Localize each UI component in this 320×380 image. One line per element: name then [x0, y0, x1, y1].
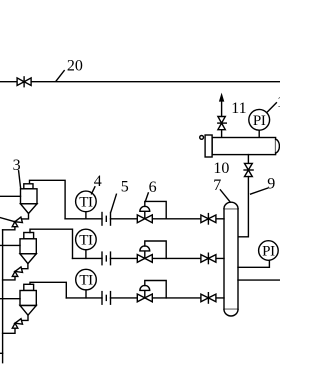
angle valve 2 discharge wire — [3, 276, 15, 280]
break symbol on line 3 — [102, 292, 111, 305]
drum right dished head — [276, 139, 280, 153]
hopper 2 body — [20, 239, 36, 254]
svg-text:6: 6 — [149, 179, 157, 196]
svg-text:TI: TI — [79, 194, 93, 210]
hopper 1 body — [21, 189, 38, 204]
TI 2 stub wire — [85, 250, 87, 259]
svg-text:12: 12 — [277, 94, 280, 111]
valve 11 (vertical) — [218, 117, 227, 130]
hopper 3 outlet wire — [30, 282, 66, 298]
block valve 1 — [201, 214, 216, 224]
control valve 2 bypass loop — [145, 241, 166, 258]
label 6 leader — [145, 193, 148, 202]
label 9 leader — [251, 188, 268, 194]
angle valve 2 — [12, 267, 22, 277]
valve below drum (vertical) — [244, 163, 253, 176]
angle valve 1 leader — [0, 218, 15, 222]
wire drum to valve — [247, 155, 249, 164]
drum nozzle circle — [200, 136, 204, 140]
column bottom dome — [224, 309, 238, 316]
control valve 2 — [137, 246, 152, 262]
label 12 leader — [267, 103, 277, 113]
header stub wire — [0, 352, 3, 354]
drum 10 body — [212, 138, 276, 155]
hopper 3 cone stem wire — [22, 315, 28, 320]
svg-text:9: 9 — [267, 175, 275, 192]
TI 1 stub wire — [85, 212, 87, 219]
train line 1 — [65, 218, 102, 220]
hopper 1 cone — [21, 204, 38, 214]
control valve 1 bypass loop — [145, 201, 166, 218]
control valve 1 — [137, 206, 152, 222]
vent line with arrow above drum — [221, 99, 223, 117]
svg-text:TI: TI — [79, 273, 93, 289]
valve on line 20 — [17, 77, 31, 87]
label 5 leader — [111, 194, 117, 212]
vent arrow — [219, 93, 224, 102]
control valve 3 bypass loop — [145, 281, 166, 298]
instrument PI (right) — [259, 241, 279, 261]
instrument TI 3 — [76, 269, 97, 290]
svg-text:3: 3 — [13, 157, 21, 174]
instrument PI (top) — [249, 109, 270, 130]
hopper 3 cone — [20, 306, 36, 316]
hopper 1 cap — [24, 184, 33, 189]
hopper 2 cone stem wire — [22, 264, 28, 269]
hopper 3 feed line — [0, 298, 20, 300]
block valve 3 — [201, 293, 216, 303]
discharge header wire — [2, 230, 4, 363]
angle valve 3 — [12, 319, 22, 329]
column top dome — [224, 202, 238, 208]
svg-text:10: 10 — [213, 160, 229, 177]
wire PI to drum — [258, 130, 260, 137]
svg-text:11: 11 — [231, 100, 246, 117]
column outlet with PI (right) — [238, 260, 269, 267]
label 4 leader — [92, 187, 95, 194]
angle valve 3 discharge wire — [3, 328, 15, 333]
block valve 2 — [201, 253, 216, 263]
svg-text:4: 4 — [94, 173, 102, 190]
column bottom outlet line — [238, 279, 280, 281]
hopper 1 feed line — [0, 195, 21, 197]
svg-text:PI: PI — [262, 244, 275, 260]
hopper 1 cone stem wire — [22, 213, 29, 219]
svg-text:7: 7 — [213, 177, 221, 194]
train line 3 — [66, 297, 102, 299]
hopper 2 feed line — [0, 244, 20, 246]
wire top header line 20 — [0, 81, 280, 83]
break symbol 5 on line 1 — [102, 213, 111, 226]
svg-text:TI: TI — [79, 233, 93, 249]
angle valve 1 discharge wire — [3, 227, 15, 230]
wire valve 11 to drum — [221, 130, 223, 138]
instrument TI 1 — [76, 191, 97, 212]
break symbol on line 2 — [102, 252, 111, 265]
label 3 leader — [19, 171, 21, 188]
svg-text:5: 5 — [121, 178, 129, 195]
svg-text:PI: PI — [253, 113, 266, 129]
train line 2 — [73, 257, 103, 259]
label 7 leader — [220, 190, 230, 202]
hopper 1 outlet wire — [30, 180, 66, 219]
instrument TI 2 — [76, 229, 97, 250]
hopper 2 outlet wire — [30, 229, 73, 258]
hopper 2 cap — [24, 233, 34, 239]
control valve 3 — [137, 285, 152, 301]
angle valve 1 — [12, 217, 22, 227]
wire valve down then left into column — [238, 177, 248, 237]
TI 3 stub wire — [85, 290, 87, 298]
hopper 3 body — [20, 291, 36, 306]
drum left flange — [205, 135, 212, 157]
label 20 leader — [56, 71, 64, 81]
column 7 shell — [224, 209, 238, 310]
svg-text:20: 20 — [67, 57, 83, 74]
hopper 2 cone — [20, 254, 36, 264]
hopper 3 cap — [24, 284, 34, 290]
